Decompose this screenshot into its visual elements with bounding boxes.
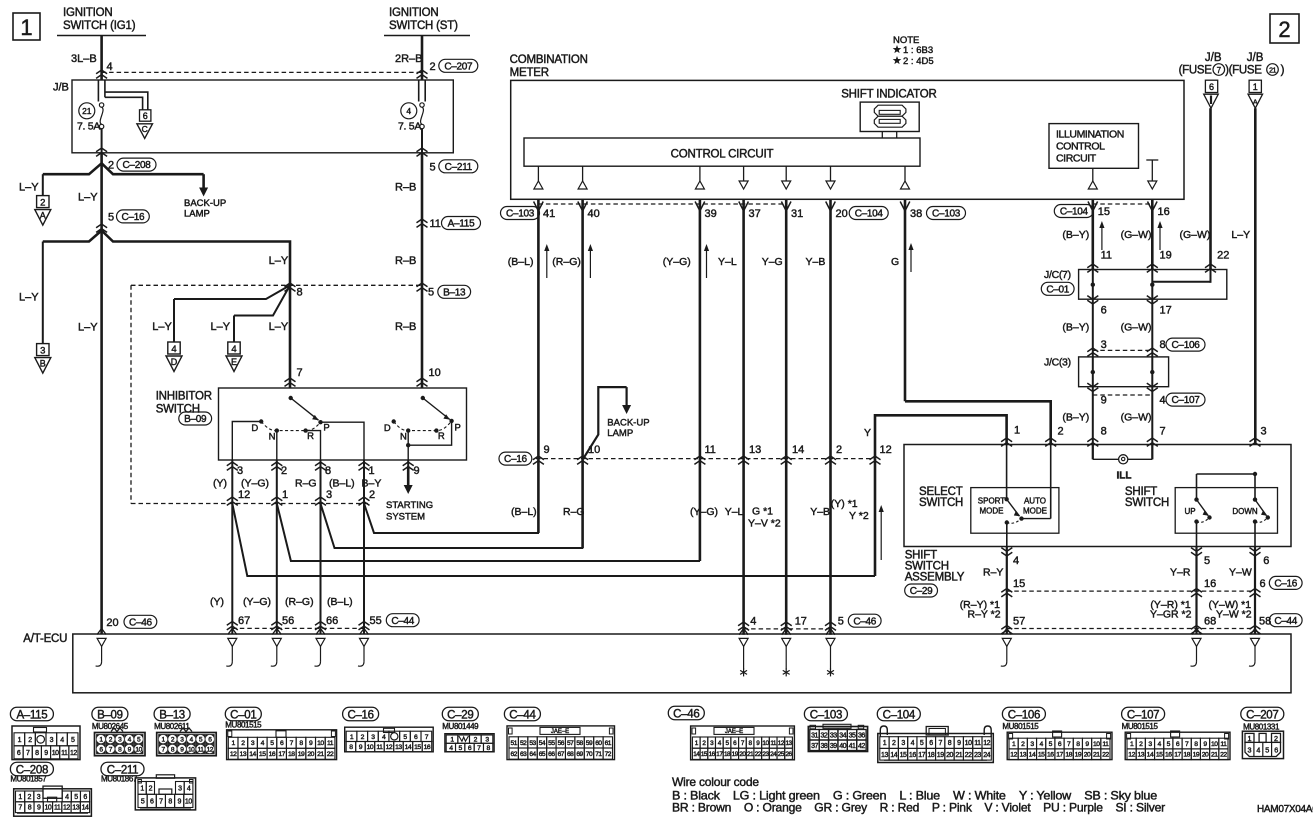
svg-text:67: 67 <box>238 615 250 627</box>
svg-text:SYSTEM: SYSTEM <box>386 512 425 523</box>
svg-text:69: 69 <box>576 751 583 758</box>
svg-text:MU801515: MU801515 <box>1122 722 1159 731</box>
svg-text:3L–B: 3L–B <box>71 53 97 65</box>
svg-text:14: 14 <box>1147 752 1154 759</box>
svg-text:68: 68 <box>1204 615 1216 627</box>
svg-text:C–46: C–46 <box>673 708 699 720</box>
svg-text:(Y): (Y) <box>213 478 227 490</box>
svg-text:MU801515: MU801515 <box>225 721 262 730</box>
svg-text:C–46: C–46 <box>129 617 152 628</box>
svg-text:Y–W: Y–W <box>1229 566 1252 578</box>
svg-text:JAE–E: JAE–E <box>725 729 743 735</box>
svg-text:10: 10 <box>429 367 441 379</box>
svg-text:9: 9 <box>957 740 961 747</box>
svg-text:12: 12 <box>230 751 237 758</box>
svg-text:4: 4 <box>60 737 64 744</box>
svg-text:MU801449: MU801449 <box>442 722 479 731</box>
svg-text:41: 41 <box>849 743 856 750</box>
svg-text:5: 5 <box>920 740 924 747</box>
svg-text:53: 53 <box>529 740 536 747</box>
svg-text:R–B: R–B <box>395 255 416 267</box>
svg-text:3: 3 <box>237 465 243 477</box>
svg-text:C–107: C–107 <box>1172 395 1201 406</box>
svg-text:8: 8 <box>297 287 303 299</box>
svg-text:14: 14 <box>693 751 700 758</box>
svg-text:5: 5 <box>1204 555 1210 567</box>
svg-text:20: 20 <box>739 751 746 758</box>
svg-text:C–01: C–01 <box>230 709 256 721</box>
svg-text:40: 40 <box>839 743 846 750</box>
svg-text:32: 32 <box>820 732 827 739</box>
svg-text:8: 8 <box>948 740 952 747</box>
svg-text:11: 11 <box>376 744 383 751</box>
svg-text:Y–V *2: Y–V *2 <box>748 518 781 530</box>
svg-text:SHIFT INDICATOR: SHIFT INDICATOR <box>841 89 936 101</box>
svg-text:10: 10 <box>965 740 972 747</box>
svg-text:R–B: R–B <box>395 182 416 194</box>
svg-text:16: 16 <box>1165 752 1172 759</box>
svg-text:10: 10 <box>367 744 374 751</box>
svg-text:2 : 4D5: 2 : 4D5 <box>903 56 934 67</box>
svg-text:66: 66 <box>326 615 338 627</box>
svg-text:(Y–G): (Y–G) <box>243 596 271 608</box>
svg-text:10: 10 <box>45 805 52 812</box>
svg-text:C–16: C–16 <box>122 212 145 223</box>
svg-text:57: 57 <box>1013 615 1025 627</box>
svg-text:SWITCH: SWITCH <box>1125 497 1169 509</box>
svg-text:C–106: C–106 <box>1172 340 1201 351</box>
svg-text:C–16: C–16 <box>504 454 527 465</box>
svg-text:11: 11 <box>1220 741 1227 748</box>
svg-text:Y–G: Y–G <box>762 256 783 268</box>
svg-text:21: 21 <box>1269 68 1276 75</box>
svg-text:59: 59 <box>586 740 593 747</box>
svg-text:C–208: C–208 <box>123 160 152 171</box>
svg-text:11: 11 <box>770 740 777 747</box>
svg-text:(R–G): (R–G) <box>285 596 314 608</box>
svg-text:9: 9 <box>1101 395 1107 407</box>
svg-text:2: 2 <box>40 197 45 208</box>
svg-text:14: 14 <box>890 752 897 759</box>
svg-text:MU801857: MU801857 <box>10 775 47 784</box>
svg-text:13: 13 <box>395 744 402 751</box>
svg-text:21: 21 <box>317 751 324 758</box>
svg-text:5: 5 <box>108 211 114 223</box>
svg-text:B: B <box>40 359 46 369</box>
svg-text:): ) <box>1281 65 1285 77</box>
svg-text:(B–L): (B–L) <box>327 596 353 608</box>
svg-text:C–44: C–44 <box>509 709 536 721</box>
svg-text:14: 14 <box>405 744 412 751</box>
svg-text:Y–B: Y–B <box>806 256 826 268</box>
svg-text:(B–L): (B–L) <box>511 506 537 518</box>
svg-text:3: 3 <box>50 737 54 744</box>
svg-text:67: 67 <box>558 751 565 758</box>
svg-text:16: 16 <box>1158 206 1170 218</box>
svg-text:17: 17 <box>795 616 807 628</box>
svg-text:70: 70 <box>586 751 593 758</box>
svg-text:15: 15 <box>1013 578 1025 590</box>
svg-text:(B–Y): (B–Y) <box>1062 229 1089 241</box>
svg-text:1: 1 <box>140 785 144 792</box>
svg-text:4: 4 <box>750 616 756 628</box>
svg-text:4: 4 <box>231 344 236 355</box>
svg-text:12: 12 <box>207 746 214 753</box>
svg-text:R: R <box>438 431 445 442</box>
svg-text:3: 3 <box>901 740 905 747</box>
svg-text:12: 12 <box>238 489 250 501</box>
svg-text:C–107: C–107 <box>1127 709 1159 721</box>
svg-text:2: 2 <box>28 794 32 801</box>
svg-text:(B–Y): (B–Y) <box>1062 322 1089 334</box>
svg-text:4: 4 <box>187 785 191 792</box>
svg-text:6: 6 <box>1101 304 1107 316</box>
svg-text:8: 8 <box>1160 339 1166 351</box>
svg-text:7: 7 <box>159 798 163 805</box>
svg-text:3: 3 <box>40 345 45 356</box>
svg-text:COMBINATION: COMBINATION <box>510 54 588 66</box>
svg-text:11: 11 <box>705 444 716 456</box>
svg-text:SWITCH (ST): SWITCH (ST) <box>389 20 458 32</box>
svg-text:)(FUSE: )(FUSE <box>1225 65 1262 77</box>
svg-text:C–46: C–46 <box>853 616 876 627</box>
svg-text:37: 37 <box>811 743 818 750</box>
svg-text:6: 6 <box>1263 555 1269 567</box>
svg-text:4: 4 <box>1160 395 1166 407</box>
svg-text:(Y–G): (Y–G) <box>690 506 718 518</box>
svg-text:C–29: C–29 <box>910 586 933 597</box>
svg-text:AUTO: AUTO <box>1024 497 1046 506</box>
svg-text:DOWN: DOWN <box>1232 507 1258 516</box>
svg-text:5: 5 <box>428 287 434 299</box>
svg-text:19: 19 <box>937 752 944 759</box>
svg-text:LAMP: LAMP <box>607 428 633 439</box>
svg-text:N: N <box>269 432 276 443</box>
svg-text:HAM07X04AC: HAM07X04AC <box>1257 804 1313 815</box>
svg-text:MU801331: MU801331 <box>1243 723 1280 732</box>
svg-text:22: 22 <box>1220 752 1227 759</box>
svg-text:7: 7 <box>297 367 303 379</box>
svg-text:METER: METER <box>510 67 549 79</box>
svg-text:P: P <box>455 423 461 434</box>
svg-text:13: 13 <box>1019 752 1026 759</box>
svg-text:1: 1 <box>20 15 32 40</box>
svg-text:3: 3 <box>1261 426 1267 438</box>
svg-text:UP: UP <box>1184 507 1195 516</box>
svg-text:11: 11 <box>327 740 334 747</box>
svg-text:3: 3 <box>178 785 182 792</box>
svg-text:(Y) *1: (Y) *1 <box>831 498 858 510</box>
svg-text:CONTROL: CONTROL <box>1056 141 1105 153</box>
svg-text:13: 13 <box>1137 752 1144 759</box>
svg-text:7: 7 <box>18 805 22 812</box>
svg-text:L–Y: L–Y <box>152 321 172 333</box>
svg-text:8: 8 <box>168 798 172 805</box>
svg-text:5: 5 <box>74 794 78 801</box>
svg-text:25: 25 <box>778 751 785 758</box>
svg-text:16: 16 <box>909 752 916 759</box>
svg-text:(B–L): (B–L) <box>329 478 355 490</box>
svg-text:19: 19 <box>1075 752 1082 759</box>
svg-text:Y *2: Y *2 <box>849 510 869 522</box>
svg-text:(Y): (Y) <box>210 596 224 608</box>
svg-text:IGNITION: IGNITION <box>63 7 113 19</box>
svg-text:5: 5 <box>430 161 436 173</box>
svg-text:17: 17 <box>1160 304 1172 316</box>
svg-text:1: 1 <box>1253 82 1258 92</box>
svg-text:7. 5A: 7. 5A <box>398 121 421 133</box>
svg-text:STARTING: STARTING <box>386 500 433 511</box>
svg-text:36: 36 <box>858 732 865 739</box>
svg-text:C–44: C–44 <box>1274 616 1297 627</box>
svg-text:6: 6 <box>83 794 87 801</box>
svg-text:C–104: C–104 <box>883 709 916 721</box>
svg-text:JAE–E: JAE–E <box>551 729 569 735</box>
svg-text:15: 15 <box>1098 206 1110 218</box>
svg-text:(Y–G): (Y–G) <box>241 478 269 490</box>
svg-text:16: 16 <box>269 751 276 758</box>
svg-text:6: 6 <box>1260 578 1266 590</box>
svg-text:8: 8 <box>1101 426 1107 438</box>
svg-text:B–09: B–09 <box>97 709 123 721</box>
svg-text:6: 6 <box>143 111 148 121</box>
svg-text:MU802645: MU802645 <box>92 722 129 731</box>
svg-text:20: 20 <box>836 208 848 220</box>
svg-text:56: 56 <box>282 615 294 627</box>
svg-text:13: 13 <box>749 444 761 456</box>
svg-text:12: 12 <box>880 444 892 456</box>
svg-text:11: 11 <box>1102 741 1109 748</box>
svg-text:56: 56 <box>558 740 565 747</box>
svg-text:14: 14 <box>1029 752 1036 759</box>
svg-text:8: 8 <box>325 465 331 477</box>
svg-text:7: 7 <box>938 740 942 747</box>
svg-text:(G–W): (G–W) <box>1121 229 1152 241</box>
svg-text:B–13: B–13 <box>443 287 466 298</box>
svg-text:(G–W): (G–W) <box>1121 322 1152 334</box>
svg-text:(R–G): (R–G) <box>552 256 581 268</box>
svg-text:ILLUMINATION: ILLUMINATION <box>1056 129 1124 141</box>
svg-text:(B–Y): (B–Y) <box>1062 412 1089 424</box>
svg-text:9: 9 <box>544 444 550 456</box>
svg-text:L–Y: L–Y <box>269 255 289 267</box>
svg-text:62: 62 <box>511 751 518 758</box>
svg-text:BACK-UP: BACK-UP <box>184 198 226 209</box>
svg-text:37: 37 <box>749 208 761 220</box>
svg-text:R–G: R–G <box>563 506 585 518</box>
svg-text:7: 7 <box>1160 426 1166 438</box>
svg-text:19: 19 <box>732 751 739 758</box>
svg-text:L–Y: L–Y <box>19 292 39 304</box>
svg-text:12: 12 <box>778 740 785 747</box>
svg-text:17: 17 <box>1056 752 1063 759</box>
svg-text:(FUSE: (FUSE <box>1179 65 1213 77</box>
svg-text:4: 4 <box>65 794 69 801</box>
svg-text:1: 1 <box>883 740 887 747</box>
svg-text:9: 9 <box>414 465 420 477</box>
svg-text:N: N <box>400 432 407 443</box>
svg-text:39: 39 <box>705 208 717 220</box>
svg-text:10: 10 <box>762 740 769 747</box>
svg-text:35: 35 <box>849 732 856 739</box>
svg-text:2: 2 <box>28 737 32 744</box>
svg-text:8: 8 <box>28 805 32 812</box>
svg-text:R–Y *2: R–Y *2 <box>968 608 1001 620</box>
svg-text:Y–L: Y–L <box>718 256 737 268</box>
svg-text:15: 15 <box>701 751 708 758</box>
svg-text:51: 51 <box>511 740 518 747</box>
svg-text:57: 57 <box>567 740 574 747</box>
svg-text:A: A <box>40 211 46 221</box>
svg-text:Wire colour code: Wire colour code <box>672 775 759 789</box>
svg-text:16: 16 <box>1047 752 1054 759</box>
svg-text:(G–W): (G–W) <box>1180 229 1211 241</box>
svg-text:D: D <box>171 357 178 367</box>
svg-text:55: 55 <box>548 740 555 747</box>
svg-text:31: 31 <box>791 208 803 220</box>
svg-text:R: R <box>307 431 314 442</box>
svg-text:24: 24 <box>983 752 990 759</box>
svg-text:18: 18 <box>928 752 935 759</box>
svg-text:2: 2 <box>149 785 153 792</box>
svg-text:3: 3 <box>37 794 41 801</box>
svg-text:C–01: C–01 <box>1046 284 1069 295</box>
svg-text:4: 4 <box>406 106 411 116</box>
svg-text:13: 13 <box>881 752 888 759</box>
svg-text:R–G: R–G <box>295 478 317 490</box>
svg-text:63: 63 <box>520 751 527 758</box>
svg-text:21: 21 <box>955 752 962 759</box>
svg-text:38: 38 <box>820 743 827 750</box>
svg-text:2: 2 <box>430 61 436 73</box>
svg-text:2R–B: 2R–B <box>395 53 423 65</box>
svg-text:17: 17 <box>918 752 925 759</box>
svg-text:5: 5 <box>1265 745 1269 754</box>
svg-text:24: 24 <box>770 751 777 758</box>
svg-text:L–Y: L–Y <box>19 182 39 194</box>
svg-text:7: 7 <box>26 750 30 757</box>
svg-text:11: 11 <box>198 746 205 753</box>
svg-text:J/C(3): J/C(3) <box>1044 357 1071 369</box>
svg-text:11: 11 <box>1101 249 1112 261</box>
svg-text:4: 4 <box>1256 745 1260 754</box>
svg-text:L–Y: L–Y <box>211 321 231 333</box>
svg-text:B–09: B–09 <box>184 414 207 425</box>
svg-text:Y: Y <box>864 427 871 439</box>
svg-text:10: 10 <box>185 798 192 805</box>
svg-text:MODE: MODE <box>980 507 1004 516</box>
svg-text:6: 6 <box>17 750 21 757</box>
svg-text:Y–GR *2: Y–GR *2 <box>1150 608 1192 620</box>
svg-text:68: 68 <box>567 751 574 758</box>
svg-text:C: C <box>142 124 148 134</box>
svg-text:18: 18 <box>724 751 731 758</box>
svg-text:18: 18 <box>1065 752 1072 759</box>
svg-text:(B–L): (B–L) <box>508 256 534 268</box>
svg-text:20: 20 <box>1202 752 1209 759</box>
svg-text:P: P <box>323 423 329 434</box>
svg-text:G *1: G *1 <box>752 506 773 518</box>
svg-text:CIRCUIT: CIRCUIT <box>1056 153 1097 165</box>
svg-text:16: 16 <box>1204 578 1216 590</box>
svg-text:G: G <box>891 256 899 268</box>
svg-text:12: 12 <box>1128 752 1135 759</box>
svg-text:64: 64 <box>529 751 536 758</box>
svg-text:21: 21 <box>1093 752 1100 759</box>
svg-text:R–Y: R–Y <box>983 566 1003 578</box>
svg-text:E: E <box>231 357 237 367</box>
svg-text:15: 15 <box>1156 752 1163 759</box>
svg-text:1: 1 <box>18 737 22 744</box>
svg-text:10: 10 <box>188 746 195 753</box>
svg-text:C–103: C–103 <box>810 709 842 721</box>
svg-text:12: 12 <box>63 805 70 812</box>
svg-text:55: 55 <box>370 615 382 627</box>
svg-text:2: 2 <box>1274 734 1278 743</box>
svg-text:2: 2 <box>1058 426 1064 438</box>
svg-text:40: 40 <box>588 208 600 220</box>
svg-text:2: 2 <box>1278 17 1290 42</box>
svg-text:15: 15 <box>259 751 266 758</box>
svg-text:C–211: C–211 <box>445 162 473 173</box>
svg-text:ILL: ILL <box>1117 471 1132 482</box>
svg-text:15: 15 <box>1038 752 1045 759</box>
svg-text:11: 11 <box>61 750 68 757</box>
svg-text:14: 14 <box>792 444 804 456</box>
svg-text:65: 65 <box>539 751 546 758</box>
svg-text:R–B: R–B <box>395 321 416 333</box>
svg-text:L–Y: L–Y <box>78 192 98 204</box>
svg-text:26: 26 <box>785 751 792 758</box>
svg-text:20: 20 <box>1084 752 1091 759</box>
svg-text:4: 4 <box>911 740 915 747</box>
svg-text:31: 31 <box>811 732 818 739</box>
svg-text:21: 21 <box>1211 752 1218 759</box>
svg-text:C–104: C–104 <box>855 209 884 220</box>
svg-text:B–13: B–13 <box>159 709 185 721</box>
svg-text:18: 18 <box>288 751 295 758</box>
svg-text:12: 12 <box>386 744 393 751</box>
svg-text:7: 7 <box>1217 66 1222 75</box>
svg-text:14: 14 <box>82 805 89 812</box>
svg-text:C–106: C–106 <box>1008 709 1040 721</box>
svg-text:21: 21 <box>747 751 754 758</box>
svg-text:12: 12 <box>1010 752 1017 759</box>
svg-text:C–29: C–29 <box>447 709 473 721</box>
svg-text:J/B: J/B <box>1247 52 1264 64</box>
svg-text:D: D <box>384 423 391 434</box>
svg-text:16: 16 <box>709 751 716 758</box>
svg-text:BACK-UP: BACK-UP <box>607 417 649 428</box>
svg-text:66: 66 <box>548 751 555 758</box>
svg-text:4: 4 <box>107 61 113 73</box>
svg-text:22: 22 <box>965 752 972 759</box>
svg-text:10: 10 <box>317 740 324 747</box>
svg-text:11: 11 <box>54 805 61 812</box>
svg-text:22: 22 <box>1102 752 1109 759</box>
svg-text:15: 15 <box>900 752 907 759</box>
svg-text:17: 17 <box>716 751 723 758</box>
svg-text:J/B: J/B <box>1205 52 1222 64</box>
svg-text:C–16: C–16 <box>347 709 373 721</box>
svg-text:52: 52 <box>520 740 527 747</box>
svg-text:72: 72 <box>605 751 612 758</box>
svg-text:20: 20 <box>946 752 953 759</box>
svg-text:34: 34 <box>839 732 846 739</box>
svg-text:1: 1 <box>1248 734 1252 743</box>
svg-text:21: 21 <box>82 106 92 116</box>
svg-text:6: 6 <box>1209 82 1214 92</box>
